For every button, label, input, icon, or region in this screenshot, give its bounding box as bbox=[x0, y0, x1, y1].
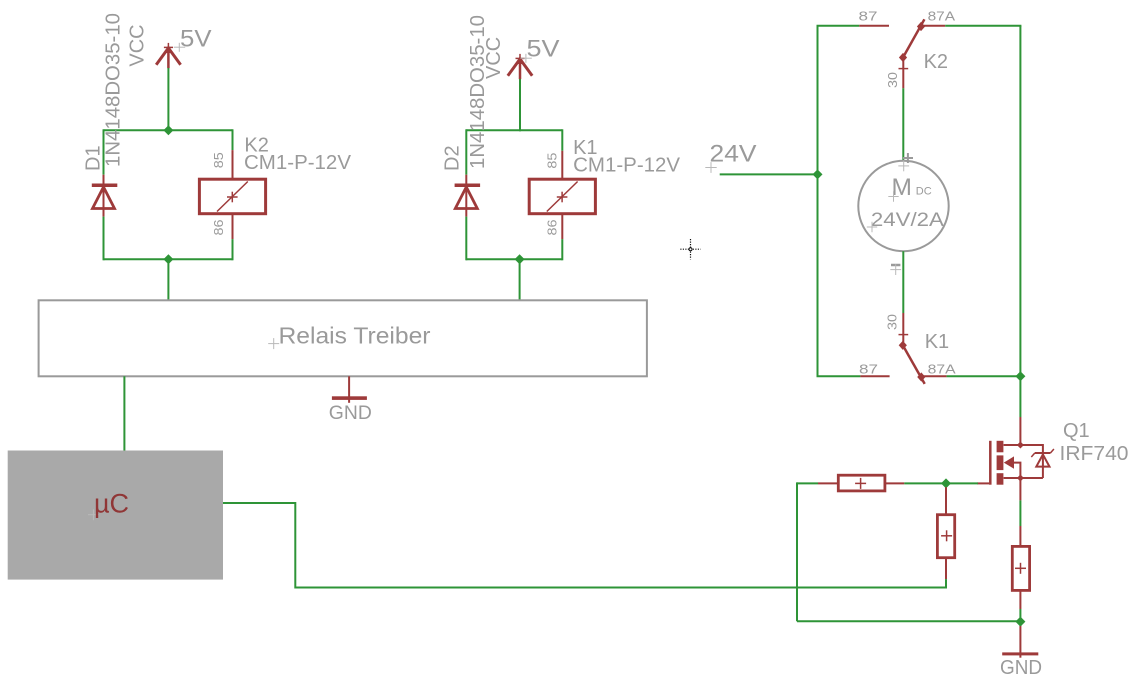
pin 85 lead K1 bbox=[561, 151, 563, 179]
wire source to resistor R3 bbox=[1019, 500, 1021, 526]
resistor R2 (gate to uC) bbox=[937, 487, 954, 579]
wire relay lower pin branch 1 bbox=[232, 239, 234, 260]
contact K1 switch arm bbox=[899, 341, 926, 384]
junction node 24V / left rail bbox=[813, 169, 823, 179]
transistor Q1 IRF740 bbox=[977, 441, 1054, 485]
supply symbol VCC (5V) branch 2 bbox=[508, 54, 532, 79]
svg-text:CM1-P-12V: CM1-P-12V bbox=[244, 152, 352, 174]
wire left vertical upper branch 1 bbox=[103, 129, 105, 174]
wire right rail bbox=[1019, 26, 1021, 377]
ground symbol GND (treiber) bbox=[332, 376, 367, 403]
svg-text:87A: 87A bbox=[928, 361, 956, 376]
wire bottom horizontal branch 2 bbox=[466, 258, 562, 260]
svg-text:IRF740: IRF740 bbox=[1060, 443, 1129, 465]
svg-text:5V: 5V bbox=[527, 36, 560, 63]
diode D1 1N4148 bbox=[92, 175, 118, 217]
svg-text:24V/2A: 24V/2A bbox=[871, 210, 944, 231]
wire relay upper pin branch 1 bbox=[232, 129, 234, 150]
wire resistor R3 to gnd node bbox=[1019, 609, 1021, 626]
contact K1 pin 30 lead bbox=[899, 313, 909, 342]
svg-text:µC: µC bbox=[94, 489, 129, 519]
pin 86 lead K1 bbox=[561, 214, 563, 239]
wire bottom rail left segment bbox=[817, 375, 861, 377]
block microcontroller uC bbox=[8, 451, 223, 580]
wire left vertical lower branch 2 bbox=[465, 217, 467, 261]
wire gate network middle segment bbox=[904, 482, 978, 484]
wire motor to contact K1 bbox=[902, 251, 904, 313]
origin cross of Relais Treiber label bbox=[268, 338, 279, 349]
wire gate network left segment bbox=[797, 482, 818, 484]
svg-text:DC: DC bbox=[916, 186, 932, 198]
svg-text:30: 30 bbox=[884, 314, 899, 330]
wire top horizontal branch 2 bbox=[466, 129, 562, 131]
svg-text:87: 87 bbox=[859, 8, 878, 23]
junction node top branch 1 bbox=[163, 125, 173, 135]
wire relay lower pin branch 2 bbox=[561, 239, 563, 260]
junction node bottom branch 2 bbox=[515, 254, 525, 264]
junction node gate bbox=[941, 478, 951, 488]
wire 5V stem branch 2 bbox=[519, 79, 521, 131]
origin cross of uC label bbox=[88, 509, 99, 520]
wire bottom horizontal branch 1 bbox=[104, 258, 233, 260]
wire 5V stem branch 1 bbox=[167, 68, 169, 130]
resistor R1 (gate series) bbox=[818, 475, 904, 491]
wire contact K2 to motor bbox=[902, 88, 904, 161]
junction node bottom rail / drain bbox=[1015, 371, 1025, 381]
relay coil K2 CM1-P-12V bbox=[199, 179, 265, 214]
ground symbol GND (power stage) bbox=[1002, 626, 1038, 658]
origin cross motor label bbox=[888, 191, 898, 201]
wire treiber to microcontroller bbox=[123, 376, 125, 450]
mosfet Q1 drain lead bbox=[1019, 417, 1021, 445]
svg-text:87A: 87A bbox=[928, 8, 956, 23]
svg-text:Q1: Q1 bbox=[1063, 420, 1090, 442]
wire top rail right segment bbox=[945, 25, 1021, 27]
SECTION: power stage bbox=[705, 8, 1025, 417]
pin 86 lead K2 bbox=[232, 214, 234, 239]
svg-text:87: 87 bbox=[859, 361, 878, 376]
contact K2 pin 87A lead bbox=[919, 25, 946, 27]
relay coil K1 CM1-P-12V bbox=[529, 179, 595, 214]
mosfet Q1 source lead bbox=[1019, 478, 1021, 500]
svg-text:5V: 5V bbox=[180, 25, 212, 52]
svg-text:85: 85 bbox=[544, 153, 559, 169]
wire 24V feed bbox=[720, 173, 818, 175]
wire gate pulldown left leg bbox=[796, 482, 798, 621]
contact K2 pin 87 lead bbox=[859, 25, 889, 27]
svg-text:86: 86 bbox=[211, 220, 226, 236]
origin cross of 24V label bbox=[705, 162, 716, 173]
svg-text:GND: GND bbox=[1000, 657, 1042, 679]
motor minus terminal mark bbox=[891, 264, 900, 267]
SECTION: mosfet stage bbox=[797, 417, 1129, 679]
wire rail to mosfet drain bbox=[1019, 376, 1021, 417]
junction node source gnd bbox=[1015, 617, 1025, 627]
svg-text:K2: K2 bbox=[924, 51, 948, 73]
svg-text:30: 30 bbox=[885, 72, 900, 88]
svg-text:Relais Treiber: Relais Treiber bbox=[279, 323, 431, 349]
pin 85 lead K2 bbox=[232, 150, 234, 179]
mouse cursor crosshair bbox=[680, 239, 700, 259]
contact K2 pin 30 lead bbox=[899, 59, 909, 88]
wire uC output to gate network bbox=[223, 503, 946, 588]
SECTION: relais treiber block bbox=[39, 300, 647, 450]
SECTION: cursor bbox=[680, 239, 700, 259]
SECTION: microcontroller bbox=[8, 451, 946, 588]
svg-text:D2: D2 bbox=[442, 145, 464, 171]
svg-text:K1: K1 bbox=[925, 331, 949, 353]
svg-text:86: 86 bbox=[544, 220, 559, 236]
svg-text:85: 85 bbox=[211, 152, 226, 168]
SECTION: relay driver branch 2 bbox=[442, 15, 681, 300]
motor M DC 24V/2A bbox=[858, 161, 948, 251]
svg-text:CM1-P-12V: CM1-P-12V bbox=[573, 155, 681, 177]
svg-text:D1: D1 bbox=[83, 145, 105, 171]
origin cross 24V/2A label bbox=[867, 222, 877, 232]
svg-text:VCC: VCC bbox=[483, 37, 505, 79]
supply symbol VCC (5V) branch 1 bbox=[156, 43, 180, 68]
wire left vertical upper branch 2 bbox=[465, 129, 467, 174]
origin cross of 5V label 2 bbox=[520, 54, 531, 63]
junction node bottom branch 1 bbox=[163, 254, 173, 264]
SECTION: relay driver branch 1 bbox=[83, 13, 352, 300]
wire gate pulldown bottom leg bbox=[797, 620, 1020, 622]
origin cross motor plus pin bbox=[898, 161, 909, 172]
origin cross motor minus pin bbox=[890, 264, 901, 275]
wire to treiber box branch 1 bbox=[167, 259, 169, 300]
contact K1 pin 87A lead bbox=[921, 375, 947, 377]
wire relay upper pin branch 2 bbox=[561, 129, 563, 151]
wire bottom rail right segment bbox=[947, 375, 1021, 377]
contact K2 switch arm bbox=[899, 19, 925, 62]
origin cross of 5V label 1 bbox=[174, 43, 185, 52]
wire resistor R2 to uC wire bbox=[945, 579, 947, 588]
wire left vertical lower branch 1 bbox=[103, 217, 105, 261]
diode D2 1N4148 bbox=[455, 175, 481, 217]
block Relais Treiber bbox=[39, 300, 647, 376]
svg-text:GND: GND bbox=[329, 403, 372, 424]
wire top horizontal branch 1 bbox=[104, 129, 233, 131]
wire top rail left segment bbox=[817, 25, 860, 27]
resistor R3 (source to GND) bbox=[1012, 526, 1029, 609]
svg-text:24V: 24V bbox=[710, 141, 757, 168]
wire left rail bbox=[817, 26, 819, 377]
svg-text:1N4148DO35-10: 1N4148DO35-10 bbox=[103, 13, 125, 167]
motor plus terminal mark bbox=[903, 153, 913, 163]
wire to treiber box branch 2 bbox=[519, 259, 521, 300]
svg-text:VCC: VCC bbox=[127, 24, 149, 66]
contact K1 pin 87 lead bbox=[860, 375, 889, 377]
